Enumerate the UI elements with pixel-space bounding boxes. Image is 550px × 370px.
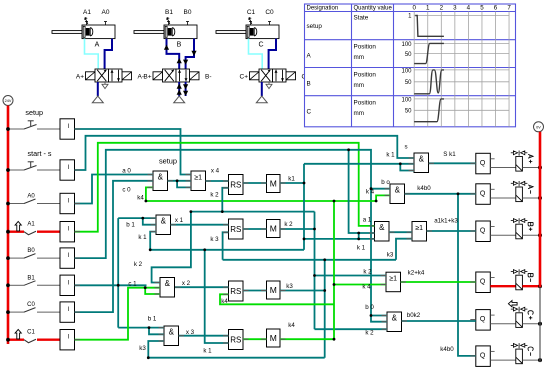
svg-text:k3: k3 bbox=[286, 283, 293, 290]
svg-text:k3: k3 bbox=[387, 252, 394, 259]
svg-text:&: & bbox=[165, 279, 171, 288]
rung A0: junction on rail bbox=[6, 202, 10, 206]
rotated label A+ bbox=[528, 154, 533, 163]
tube valve B supply with flow arrows bbox=[177, 82, 182, 96]
valve solenoid A+ bbox=[516, 154, 523, 171]
relay coil Q (C-) bbox=[476, 346, 495, 367]
rotated label B- bbox=[528, 273, 533, 282]
svg-text:C0: C0 bbox=[27, 302, 35, 308]
svg-text:B-: B- bbox=[205, 74, 212, 81]
svg-text:Q: Q bbox=[480, 352, 486, 359]
exhaust silencer A bbox=[102, 82, 108, 89]
cylinder B bbox=[134, 25, 197, 39]
svg-text:24V: 24V bbox=[5, 99, 12, 103]
svg-text:A0: A0 bbox=[27, 194, 35, 200]
svg-text:3: 3 bbox=[453, 5, 457, 12]
svg-text:k3: k3 bbox=[139, 345, 146, 352]
svg-text:C: C bbox=[307, 109, 312, 116]
input block I (B0) bbox=[60, 248, 75, 268]
tube valve B exhaust flow bbox=[183, 82, 188, 96]
svg-text:≥1: ≥1 bbox=[415, 225, 423, 232]
AND gate U11 (k4b0) bbox=[390, 184, 405, 204]
svg-text:M: M bbox=[270, 285, 277, 295]
svg-text:50: 50 bbox=[405, 109, 412, 115]
valve icon above solenoid C- bbox=[511, 343, 528, 348]
cylinder A bbox=[52, 25, 115, 39]
svg-text:C0: C0 bbox=[265, 9, 274, 16]
wire net k3 riser to OR U13 input3 bbox=[396, 239, 412, 260]
svg-text:k 2: k 2 bbox=[210, 191, 219, 198]
svg-text:B1: B1 bbox=[27, 275, 35, 281]
AND gate U4 bbox=[156, 215, 171, 235]
OR gate U14 (k2+k4) bbox=[386, 272, 401, 292]
svg-text:a 1: a 1 bbox=[363, 216, 372, 223]
exhaust silencer C bbox=[266, 82, 272, 89]
rotated label B+ bbox=[528, 222, 533, 231]
svg-text:0V: 0V bbox=[536, 125, 541, 129]
wire net k3 bottom to AND U8 bbox=[148, 357, 324, 359]
svg-text:A0: A0 bbox=[102, 9, 110, 16]
wire net k4 (green) to AND U1 input3 bbox=[146, 187, 153, 201]
input block I (C0) bbox=[60, 302, 75, 322]
wire net k3 join M3 out bbox=[280, 290, 325, 292]
svg-text:50: 50 bbox=[405, 52, 412, 58]
valve icon above solenoid A+ bbox=[511, 151, 528, 156]
svg-text:mm: mm bbox=[354, 82, 365, 89]
svg-text:start - s: start - s bbox=[28, 149, 52, 158]
wire net RS U3 to M1 bbox=[243, 182, 267, 184]
wire net AND U15 out b0k2 to Q5 bbox=[402, 320, 476, 322]
wire net B0 branch to AND U11 bbox=[371, 188, 390, 190]
trace position A bbox=[414, 43, 444, 63]
wire net AND U4 out x1 to RS U5 bbox=[171, 224, 229, 226]
wire net k1 drop to lower line bbox=[358, 233, 360, 239]
svg-text:&: & bbox=[379, 223, 385, 232]
svg-text:&: & bbox=[169, 327, 175, 336]
24V supply terminal bbox=[3, 96, 13, 106]
svg-text:setup: setup bbox=[25, 108, 43, 117]
rung setup: junction on rail bbox=[6, 127, 10, 131]
rotated label C- bbox=[528, 347, 533, 356]
svg-text:Q: Q bbox=[480, 160, 486, 167]
memory M3 bbox=[267, 281, 281, 299]
AND gate U6 bbox=[160, 278, 175, 298]
rung B0: switch bbox=[8, 248, 60, 258]
wire net start-s: I out to AND U10 input s bbox=[75, 136, 415, 170]
relay coil Q (A+) bbox=[476, 153, 495, 174]
chart value labels bbox=[401, 14, 412, 115]
svg-text:k 2: k 2 bbox=[134, 261, 143, 268]
svg-text:&: & bbox=[161, 216, 167, 225]
svg-text:State: State bbox=[354, 15, 369, 22]
input block I (start - s) bbox=[60, 160, 75, 180]
wire net RS U7 to M3 bbox=[243, 290, 267, 292]
tube cylinder A left port (exhaust, cyan) bbox=[85, 39, 99, 69]
wire net C1 (green): I out to AND U6 bbox=[75, 288, 161, 340]
relay coil Q (B+) bbox=[476, 221, 495, 242]
svg-text:&: & bbox=[395, 185, 401, 194]
RS flip-flop U3 bbox=[229, 175, 244, 195]
svg-text:x 1: x 1 bbox=[175, 217, 184, 224]
wire solenoid C+ to 0V rail bbox=[522, 323, 540, 325]
wire net B0: I out up and right bbox=[75, 150, 388, 316]
svg-text:&: & bbox=[419, 154, 425, 163]
AND gate U1 bbox=[153, 171, 168, 191]
svg-text:k 3: k 3 bbox=[210, 236, 219, 243]
wire Q out to solenoid C+ bbox=[490, 323, 516, 325]
cylinder C bbox=[216, 25, 279, 39]
signal labels bbox=[122, 143, 458, 354]
wire net b0 drop to AND U12 input2 bbox=[349, 150, 375, 233]
svg-text:k 1: k 1 bbox=[386, 151, 395, 158]
svg-text:Q: Q bbox=[480, 190, 486, 197]
sensor C1 bbox=[247, 9, 256, 25]
chart grid bbox=[414, 12, 509, 127]
wire solenoid A- to 0V rail bbox=[522, 197, 540, 199]
svg-text:Position: Position bbox=[354, 100, 377, 107]
svg-text:mm: mm bbox=[354, 54, 365, 61]
left arrow indicator (C+ about to actuate) bbox=[508, 301, 517, 307]
wire net k1 drop to RS U9 R bbox=[205, 250, 229, 343]
wire net k4 green vertical bbox=[333, 201, 335, 339]
wire net k1 branch AND U10 input3 bbox=[400, 164, 414, 171]
valve VC 5/2-way bbox=[250, 69, 296, 82]
sensor B1 bbox=[165, 9, 173, 25]
svg-text:6: 6 bbox=[494, 5, 498, 12]
wire net k3 riser to AND U8 input3 bbox=[148, 341, 164, 358]
state diagram table bbox=[305, 4, 516, 127]
compressed air source C bbox=[256, 96, 267, 103]
svg-text:mm: mm bbox=[354, 110, 365, 117]
tube cylinder B right port (exhaust flowing out, blue) bbox=[183, 39, 197, 69]
svg-text:k 2: k 2 bbox=[365, 330, 374, 337]
svg-text:k 4: k 4 bbox=[366, 189, 375, 196]
svg-text:b o: b o bbox=[381, 179, 390, 186]
svg-text:B1: B1 bbox=[165, 9, 173, 16]
wire net B1 to AND U4 inputs bbox=[118, 217, 156, 219]
svg-text:Q: Q bbox=[480, 316, 486, 323]
trace position B bbox=[414, 70, 444, 94]
rung start - s: junction on rail bbox=[6, 168, 10, 172]
svg-text:k 2: k 2 bbox=[363, 269, 372, 276]
wire net k4 (green) long horizontal bbox=[146, 200, 376, 202]
OR gate U2 bbox=[191, 171, 206, 191]
wire net k2 to RS U3 R input bbox=[222, 188, 228, 212]
tube cylinder A right port (pressure, blue) bbox=[105, 39, 112, 69]
svg-text:setup: setup bbox=[159, 157, 177, 166]
svg-text:Designation: Designation bbox=[307, 5, 339, 11]
svg-text:100: 100 bbox=[401, 42, 412, 48]
valve icon above solenoid B+ bbox=[511, 218, 528, 223]
rung A1: switch bbox=[8, 221, 60, 234]
svg-text:b 1: b 1 bbox=[148, 316, 157, 323]
wire net k1 horizontal to AND U12 input3 bbox=[304, 238, 375, 240]
wire net M4 out k4 (green) bbox=[280, 338, 334, 340]
wire net k4b0 trunk down to Q6 bbox=[458, 194, 476, 356]
valve solenoid B+ bbox=[516, 222, 523, 239]
wire net A1 (green): I out to AND U12 input a1 bbox=[75, 143, 375, 232]
rung C1: switch bbox=[8, 330, 60, 343]
rung C0: switch bbox=[8, 302, 60, 312]
valve icon above solenoid A- bbox=[511, 181, 528, 186]
sensor A0 bbox=[102, 9, 110, 25]
svg-text:M: M bbox=[270, 333, 277, 343]
svg-text:Q: Q bbox=[480, 228, 486, 235]
wire net k1 to AND U10 bbox=[304, 163, 414, 165]
valve solenoid C- bbox=[516, 347, 523, 364]
memory M1 bbox=[267, 175, 281, 193]
valve icon above solenoid C+ bbox=[511, 307, 528, 312]
wire net setup: I out to OR U2 input bbox=[75, 129, 192, 175]
svg-text:Quantity value: Quantity value bbox=[354, 5, 393, 11]
RS flip-flop U5 bbox=[229, 219, 244, 239]
svg-text:B+: B+ bbox=[143, 74, 151, 81]
valve VB 5/2-way bbox=[153, 69, 199, 82]
svg-text:k4: k4 bbox=[221, 298, 228, 305]
svg-text:B0: B0 bbox=[27, 248, 35, 254]
svg-text:k 2: k 2 bbox=[284, 221, 293, 228]
svg-text:k 1: k 1 bbox=[203, 347, 212, 354]
svg-text:RS: RS bbox=[230, 225, 241, 234]
svg-text:0: 0 bbox=[412, 5, 416, 12]
svg-text:7: 7 bbox=[507, 5, 511, 12]
wire net AND U1 out branch to OR U2 input3 bbox=[177, 181, 191, 188]
junction on 0V rail (C+) bbox=[538, 322, 542, 326]
wire net k2 left branch down to AND U6 bbox=[152, 212, 191, 283]
relay coil Q (A-) bbox=[476, 184, 495, 205]
svg-text:RS: RS bbox=[230, 287, 241, 296]
wire net k4 (green) riser to AND U11 input2 bbox=[376, 195, 390, 201]
wire net k1 horizontal lower bbox=[150, 249, 304, 251]
wire net k2 to OR U14 input1 bbox=[315, 275, 387, 277]
valve VA 5/2-way bbox=[86, 69, 132, 82]
svg-text:&: & bbox=[158, 172, 164, 181]
input block I (C1) bbox=[60, 330, 75, 350]
memory M4 bbox=[267, 329, 281, 347]
junction on 0V rail (B+) bbox=[538, 233, 542, 237]
wire net M2 out k2 join bbox=[280, 228, 315, 230]
chart time axis labels 0-7 bbox=[412, 5, 511, 12]
svg-text:c 1: c 1 bbox=[128, 281, 137, 288]
wire net B1: I out to trunk bbox=[75, 284, 147, 286]
wire net RS U5 to M2 bbox=[243, 228, 267, 230]
svg-text:k 1: k 1 bbox=[138, 234, 147, 241]
junction on 0V rail (A+) bbox=[538, 166, 542, 170]
svg-text:A1: A1 bbox=[27, 222, 35, 228]
input block I (B1) bbox=[60, 275, 75, 295]
component pin stubs bbox=[75, 129, 476, 356]
svg-text:B0: B0 bbox=[184, 9, 192, 16]
svg-text:C1: C1 bbox=[247, 9, 256, 16]
tube valve A supply bbox=[97, 82, 99, 96]
svg-text:4: 4 bbox=[467, 5, 471, 12]
actuated indicator arrow bbox=[15, 330, 21, 339]
svg-text:A1: A1 bbox=[83, 9, 91, 16]
wire net C0: I out to AND U1 input c0 bbox=[75, 181, 154, 312]
wire solenoid B+ to 0V rail bbox=[522, 234, 540, 236]
svg-text:RS: RS bbox=[230, 180, 241, 189]
relay coil Q (C+) bbox=[476, 310, 495, 331]
svg-text:RS: RS bbox=[230, 335, 241, 344]
svg-text:C: C bbox=[258, 42, 263, 49]
compressed air source A bbox=[92, 96, 103, 103]
AND gate U15 (b0k2) bbox=[387, 312, 402, 332]
actuated indicator arrow bbox=[15, 221, 21, 230]
rung A1: junction on rail bbox=[6, 230, 10, 234]
wire net B1 branch AND U4 input2 bbox=[143, 218, 156, 225]
svg-text:≥1: ≥1 bbox=[389, 276, 397, 283]
svg-text:B: B bbox=[177, 42, 182, 49]
compressed air source B bbox=[174, 96, 185, 103]
svg-text:b 1: b 1 bbox=[126, 222, 135, 229]
24V rail (red, energized) bbox=[7, 106, 10, 345]
wire net B1 vertical trunk bbox=[117, 218, 119, 328]
wire Q out to solenoid A- bbox=[490, 197, 516, 199]
wire Q out to solenoid B- bbox=[490, 285, 516, 287]
wire net AND U11 out k4b0 to Q2 bbox=[405, 193, 476, 195]
svg-text:1: 1 bbox=[426, 5, 430, 12]
svg-text:2: 2 bbox=[440, 5, 444, 12]
junction on 0V rail (B-) bbox=[538, 284, 542, 288]
svg-text:C1: C1 bbox=[27, 330, 35, 336]
rotated label A- bbox=[528, 185, 533, 194]
trace position C bbox=[414, 99, 444, 122]
svg-text:a 0: a 0 bbox=[122, 167, 131, 174]
rung B0: junction on rail bbox=[6, 256, 10, 260]
wire net k3 vertical right bbox=[324, 260, 326, 358]
wire net AND U10 out S k1 to Q1 bbox=[429, 162, 476, 164]
sensor C0 bbox=[265, 9, 274, 25]
svg-text:50: 50 bbox=[405, 80, 412, 86]
RS flip-flop U7 bbox=[229, 281, 244, 301]
wire net B1 branch AND U8 input2 bbox=[149, 328, 164, 335]
wire net C1 branch AND U6 input3 bbox=[145, 288, 160, 294]
relay coil Q (B-) bbox=[476, 272, 495, 293]
svg-text:A: A bbox=[95, 42, 100, 49]
rung C1: junction on rail bbox=[6, 338, 10, 342]
wire solenoid B- to 0V rail bbox=[522, 285, 540, 287]
svg-text:B: B bbox=[307, 81, 311, 88]
svg-text:c 0: c 0 bbox=[122, 187, 131, 194]
svg-text:≥1: ≥1 bbox=[194, 175, 202, 182]
wire net AND U6 out x2 to RS U7 bbox=[175, 286, 229, 288]
wire net k4 green to OR U14 input2 bbox=[334, 284, 386, 286]
RS flip-flop U9 bbox=[229, 330, 244, 350]
wire net k1 vertical trunk bbox=[303, 164, 305, 250]
wire solenoid A+ to 0V rail bbox=[522, 167, 540, 169]
svg-text:k1: k1 bbox=[288, 175, 295, 182]
wire net k2 horizontal L1 bbox=[191, 211, 315, 213]
svg-text:5: 5 bbox=[480, 5, 484, 12]
tube valve C supply bbox=[261, 82, 263, 96]
valve solenoid B- bbox=[516, 273, 523, 290]
valve solenoid C+ bbox=[516, 310, 523, 327]
svg-text:s: s bbox=[404, 143, 407, 150]
svg-text:A+: A+ bbox=[76, 74, 84, 81]
wire Q out to solenoid C- bbox=[490, 359, 516, 361]
svg-text:k4: k4 bbox=[288, 322, 295, 329]
tube cylinder C right port (pressure, blue) bbox=[269, 39, 276, 69]
rung setup: switch bbox=[8, 108, 60, 129]
tube cylinder B left port (pressure flowing in, blue) bbox=[164, 39, 182, 69]
wire net k3 riser to RS U5 R bbox=[223, 232, 229, 259]
wire net k1 riser to AND U4 input3 bbox=[150, 232, 156, 250]
0V rail lower (gray) bbox=[539, 287, 541, 362]
wire net OR U14 out k2+k4 to Q4 (green) bbox=[401, 281, 476, 283]
rung C0: junction on rail bbox=[6, 310, 10, 314]
svg-text:k4b0: k4b0 bbox=[417, 185, 431, 192]
wire net B1 to AND U8 input1 bbox=[118, 327, 164, 329]
wire net k3 horizontal bbox=[223, 259, 396, 261]
svg-text:k 4: k 4 bbox=[362, 284, 371, 291]
wire net OR U13 out a1k1+k3 to Q3 bbox=[427, 230, 476, 232]
AND gate U8 bbox=[164, 326, 179, 346]
svg-text:x 3: x 3 bbox=[186, 329, 195, 336]
svg-text:&: & bbox=[392, 313, 398, 322]
0V rail upper (red, current flowing) bbox=[539, 132, 542, 287]
svg-text:S k1: S k1 bbox=[443, 151, 456, 158]
valve solenoid A- bbox=[516, 185, 523, 202]
rotated label C+ bbox=[528, 311, 533, 320]
wire net OR U2 out to RS U3 bbox=[206, 180, 229, 182]
wire net A0: I out to AND U1 input a0 bbox=[75, 175, 154, 204]
svg-text:x 4: x 4 bbox=[211, 168, 220, 175]
rung A0: switch bbox=[8, 194, 60, 204]
sensor A1 bbox=[83, 9, 91, 25]
wire net AND U1 out to OR U2 bbox=[168, 180, 192, 182]
trace setup state bbox=[415, 16, 444, 37]
rung B1: junction on rail bbox=[6, 283, 10, 287]
wire net RS U9 to M4 (green) bbox=[243, 338, 267, 340]
wire Q out to solenoid B+ bbox=[490, 234, 516, 236]
input block I (setup) bbox=[60, 119, 75, 139]
svg-text:a1k1+k3: a1k1+k3 bbox=[434, 218, 458, 225]
svg-text:x 2: x 2 bbox=[182, 280, 191, 287]
wire net AND U8 out x3 to RS U9 bbox=[179, 335, 229, 337]
svg-text:M: M bbox=[270, 223, 277, 233]
junction on 0V rail (A-) bbox=[538, 196, 542, 200]
wire net k2 trunk down right bbox=[314, 212, 316, 330]
junction on 0V rail (C-) bbox=[538, 358, 542, 362]
valve icon above solenoid B- bbox=[511, 269, 528, 274]
svg-text:Q: Q bbox=[480, 279, 486, 286]
svg-text:setup: setup bbox=[307, 23, 323, 30]
svg-text:k2+k4: k2+k4 bbox=[408, 269, 425, 276]
AND gate U12 (a1 k1) bbox=[375, 222, 390, 242]
svg-text:k4: k4 bbox=[137, 195, 144, 202]
svg-text:k 1: k 1 bbox=[357, 245, 366, 252]
wire junctions bbox=[117, 148, 460, 359]
sensor B0 bbox=[184, 9, 192, 25]
wire net M1 out k1 bbox=[280, 182, 304, 184]
svg-text:Position: Position bbox=[354, 72, 377, 79]
svg-text:C+: C+ bbox=[240, 74, 249, 81]
wire net k2 to AND U15 input3 bbox=[315, 328, 388, 330]
svg-text:b 0: b 0 bbox=[365, 304, 374, 311]
wire net B0 branch to AND U15 input2 bbox=[371, 316, 387, 322]
wire net k4 green to RS U7 lower input bbox=[220, 294, 334, 304]
wire solenoid C- to 0V rail bbox=[522, 359, 540, 361]
memory M2 bbox=[267, 220, 281, 238]
OR gate U13 (a1k1+k3) bbox=[412, 222, 427, 242]
wire Q out to solenoid A+ bbox=[490, 167, 516, 169]
0V terminal bbox=[534, 122, 544, 132]
svg-text:k4b0: k4b0 bbox=[440, 346, 454, 353]
input block I (A0) bbox=[60, 193, 75, 213]
svg-text:b0k2: b0k2 bbox=[407, 312, 421, 319]
input block I (A1) bbox=[60, 222, 75, 242]
svg-text:100: 100 bbox=[401, 97, 412, 103]
